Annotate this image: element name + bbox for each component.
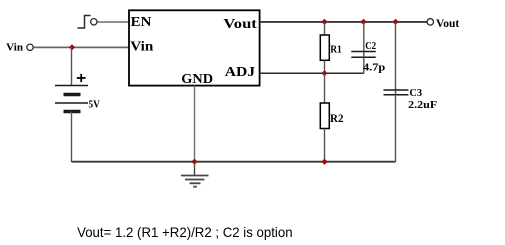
wire ADJ node to R2 bbox=[324, 73, 326, 103]
svg-text:Vout: Vout bbox=[436, 18, 459, 30]
wire C3 node down to C3 bbox=[395, 22, 397, 95]
terminal circle (pulse source) bbox=[91, 19, 97, 25]
svg-text:Vout= 1.2 (R1 +R2)/R2 ; C2 is: Vout= 1.2 (R1 +R2)/R2 ; C2 is option bbox=[77, 225, 293, 240]
wire ADJ bbox=[260, 72, 364, 74]
svg-text:Vin: Vin bbox=[6, 42, 23, 54]
svg-text:C2: C2 bbox=[365, 41, 376, 52]
junction dot (R1 top) bbox=[321, 19, 327, 25]
terminal circle Vin bbox=[27, 44, 33, 50]
capacitor C3 plates bbox=[384, 90, 409, 95]
svg-text:R1: R1 bbox=[330, 44, 342, 55]
battery B1 plus label bbox=[77, 74, 86, 82]
junction dot (C2 top) bbox=[360, 19, 366, 25]
junction dot (R2 bottom node) bbox=[321, 159, 327, 165]
wire bottom ground rail bbox=[72, 161, 396, 163]
capacitor C2 plates bbox=[351, 52, 376, 58]
wire Vin (terminal to Vin pin) bbox=[33, 46, 129, 48]
wire Vout rail bbox=[260, 21, 427, 23]
svg-text:Vout: Vout bbox=[223, 17, 257, 32]
battery B1 plates bbox=[55, 86, 88, 112]
svg-text:C3: C3 bbox=[409, 88, 422, 99]
svg-text:2.2uF: 2.2uF bbox=[408, 100, 437, 111]
wire junction down to battery bbox=[71, 47, 73, 85]
svg-text:4.7p: 4.7p bbox=[363, 63, 385, 74]
svg-text:R2: R2 bbox=[330, 111, 344, 125]
wire GND pin to rail bbox=[194, 86, 196, 163]
wire Vout rail to C2 bbox=[363, 22, 365, 57]
svg-text:GND: GND bbox=[181, 72, 213, 87]
wire R2 to bottom rail bbox=[324, 129, 326, 163]
wire EN (pulse source to EN pin) bbox=[97, 21, 129, 23]
svg-text:EN: EN bbox=[131, 15, 152, 30]
junction dot (Vin node) bbox=[69, 44, 75, 50]
svg-text:5V: 5V bbox=[88, 100, 100, 111]
svg-text:Vin: Vin bbox=[130, 40, 153, 55]
ground symbol bbox=[181, 162, 209, 187]
wire C2 to ADJ rail bbox=[363, 57, 365, 73]
junction dot (ground rail node) bbox=[191, 159, 197, 165]
resistor R2 body bbox=[320, 103, 329, 129]
svg-text:ADJ: ADJ bbox=[225, 65, 255, 80]
wire C3 to bottom rail bbox=[395, 95, 397, 162]
terminal circle Vout bbox=[427, 19, 433, 25]
pulse source symbol bbox=[78, 16, 91, 29]
op-amp U1 regulator body bbox=[129, 10, 260, 85]
wire Vout rail to R1 bbox=[324, 22, 326, 35]
wire R1 to ADJ rail bbox=[324, 60, 326, 73]
resistor R1 body bbox=[320, 35, 329, 60]
wire battery to bottom rail bbox=[71, 112, 73, 163]
junction dot (ADJ/R1 node) bbox=[321, 70, 327, 76]
junction dot (C3 node) bbox=[392, 19, 398, 25]
